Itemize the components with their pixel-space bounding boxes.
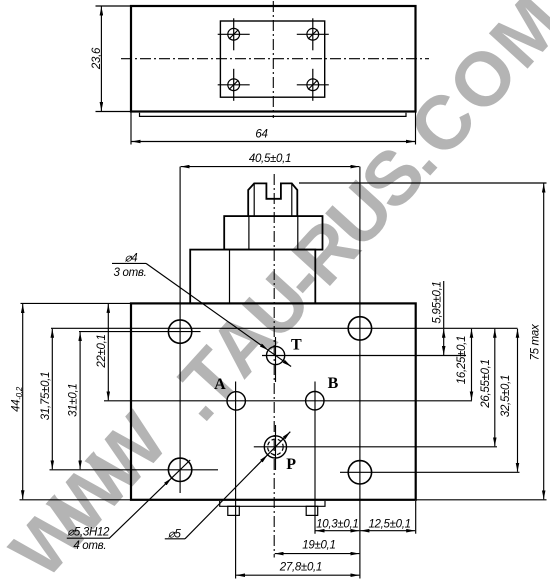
svg-text:12,5±0,1: 12,5±0,1 bbox=[368, 518, 410, 530]
big hole top-left bbox=[168, 320, 191, 343]
big hole top-right bbox=[348, 317, 371, 340]
row line bottom-left hole bbox=[50, 469, 219, 471]
plate top extension left bbox=[21, 302, 132, 304]
svg-text:31,75±0,1: 31,75±0,1 bbox=[40, 372, 52, 420]
svg-text:23,6: 23,6 bbox=[91, 47, 103, 70]
svg-text:19±0,1: 19±0,1 bbox=[302, 539, 335, 551]
front subplate edge bbox=[220, 501, 325, 506]
top view mounting-pad rect bbox=[220, 21, 324, 97]
dimension 22±0,1 bbox=[107, 304, 109, 400]
right hole column line bbox=[359, 167, 361, 579]
dimension 12,5±0,1 bbox=[360, 530, 415, 532]
row line T bbox=[262, 355, 466, 357]
plate bottom extension left bbox=[20, 499, 132, 501]
top view subplate edge bbox=[140, 113, 407, 117]
svg-text:64: 64 bbox=[255, 129, 267, 141]
mid tier inner line right bbox=[297, 216, 299, 250]
row line top-right holes bbox=[51, 327, 518, 329]
svg-text:16,25±0,1: 16,25±0,1 bbox=[456, 336, 468, 384]
dimension 10,3±0,1 bbox=[316, 530, 360, 532]
column line A bbox=[235, 382, 237, 579]
svg-text:5,95±0,1: 5,95±0,1 bbox=[432, 281, 444, 323]
leader dia5,3 to bottom-left hole bbox=[109, 478, 171, 538]
port T bbox=[267, 346, 285, 364]
plate bottom extension right bbox=[416, 499, 547, 501]
row line A B bbox=[104, 400, 472, 402]
row line top-left hole bbox=[79, 331, 201, 333]
dimension 75 max bbox=[543, 184, 545, 500]
hole TV1 bbox=[218, 18, 250, 50]
dimension 19±0,1 bbox=[275, 553, 360, 555]
leader dia4 to T bbox=[146, 263, 268, 350]
top view vertical centerline bbox=[272, 1, 274, 118]
dimension 26,55±0,1 bbox=[494, 329, 496, 447]
body tier inner line bbox=[229, 250, 231, 304]
main vertical centerline bbox=[273, 174, 275, 558]
top view plate outline bbox=[131, 6, 416, 112]
dimension 32,5±0,1 bbox=[517, 329, 519, 472]
P vertical tick bbox=[275, 425, 277, 470]
svg-text:P: P bbox=[286, 456, 296, 473]
cap top extension line to 75max bbox=[299, 182, 547, 184]
T vertical tick bbox=[275, 337, 277, 382]
dimension 31±0,1 bbox=[79, 332, 81, 469]
port P bbox=[264, 436, 286, 458]
dimension 31,75±0,1 bbox=[51, 329, 53, 470]
svg-text:3 отв.: 3 отв. bbox=[114, 267, 147, 279]
top view horizontal centerline bbox=[121, 58, 429, 60]
svg-text:22±0,1: 22±0,1 bbox=[96, 334, 108, 368]
dimension 27,8±0,1 bbox=[236, 574, 359, 576]
svg-text:4 отв.: 4 отв. bbox=[73, 540, 106, 552]
row line P bbox=[254, 446, 497, 448]
svg-text:B: B bbox=[328, 375, 339, 392]
port B bbox=[306, 392, 324, 410]
svg-text:10,3±0,1: 10,3±0,1 bbox=[316, 518, 358, 530]
hole TV4 bbox=[297, 69, 329, 101]
svg-text:27,8±0,1: 27,8±0,1 bbox=[279, 561, 322, 573]
svg-text:75 max: 75 max bbox=[530, 323, 542, 360]
svg-text:32,5±0,1: 32,5±0,1 bbox=[500, 375, 512, 417]
extension lines 23,6 bbox=[96, 5, 132, 7]
valve body tier bbox=[190, 250, 315, 304]
column line B bbox=[314, 382, 316, 534]
svg-text:40,5±0,1: 40,5±0,1 bbox=[249, 153, 291, 165]
dimension 5,95±0,1 bbox=[443, 281, 445, 328]
svg-text:26,55±0,1: 26,55±0,1 bbox=[480, 359, 492, 408]
leader dia5 to P bbox=[185, 455, 268, 539]
hole TV2 bbox=[297, 18, 329, 50]
valve cap outline bbox=[248, 183, 297, 216]
hole TV3 bbox=[218, 69, 250, 101]
big hole bottom-left bbox=[168, 458, 191, 481]
extension lines 64 bbox=[130, 113, 132, 145]
dimension 40,5±0,1 bbox=[181, 166, 360, 168]
valve mid tier bbox=[224, 216, 322, 250]
left hole column line bbox=[179, 167, 181, 493]
svg-text:A: A bbox=[214, 376, 226, 393]
locating pin left bbox=[228, 506, 240, 515]
cap chamfer line right bbox=[291, 183, 293, 216]
dimension 44-0,2 bbox=[22, 304, 24, 499]
svg-text:⌀5,3Н12: ⌀5,3Н12 bbox=[67, 526, 110, 538]
dimension 23,6 bbox=[100, 7, 102, 112]
front view plate outline bbox=[131, 303, 416, 499]
port A bbox=[227, 392, 245, 410]
dimension 64 bbox=[132, 141, 416, 143]
dimension 16,25±0,1 bbox=[471, 329, 473, 401]
svg-text:31±0,1: 31±0,1 bbox=[68, 384, 80, 417]
big hole bottom-right bbox=[348, 461, 371, 484]
row line bottom-right hole bbox=[340, 471, 520, 473]
svg-text:T: T bbox=[291, 337, 302, 354]
plate right edge extension down bbox=[415, 501, 417, 534]
mid tier inner line left bbox=[248, 216, 250, 250]
cap chamfer line left bbox=[253, 183, 255, 216]
svg-text:⌀4: ⌀4 bbox=[125, 252, 138, 264]
locating pin right bbox=[306, 506, 318, 515]
